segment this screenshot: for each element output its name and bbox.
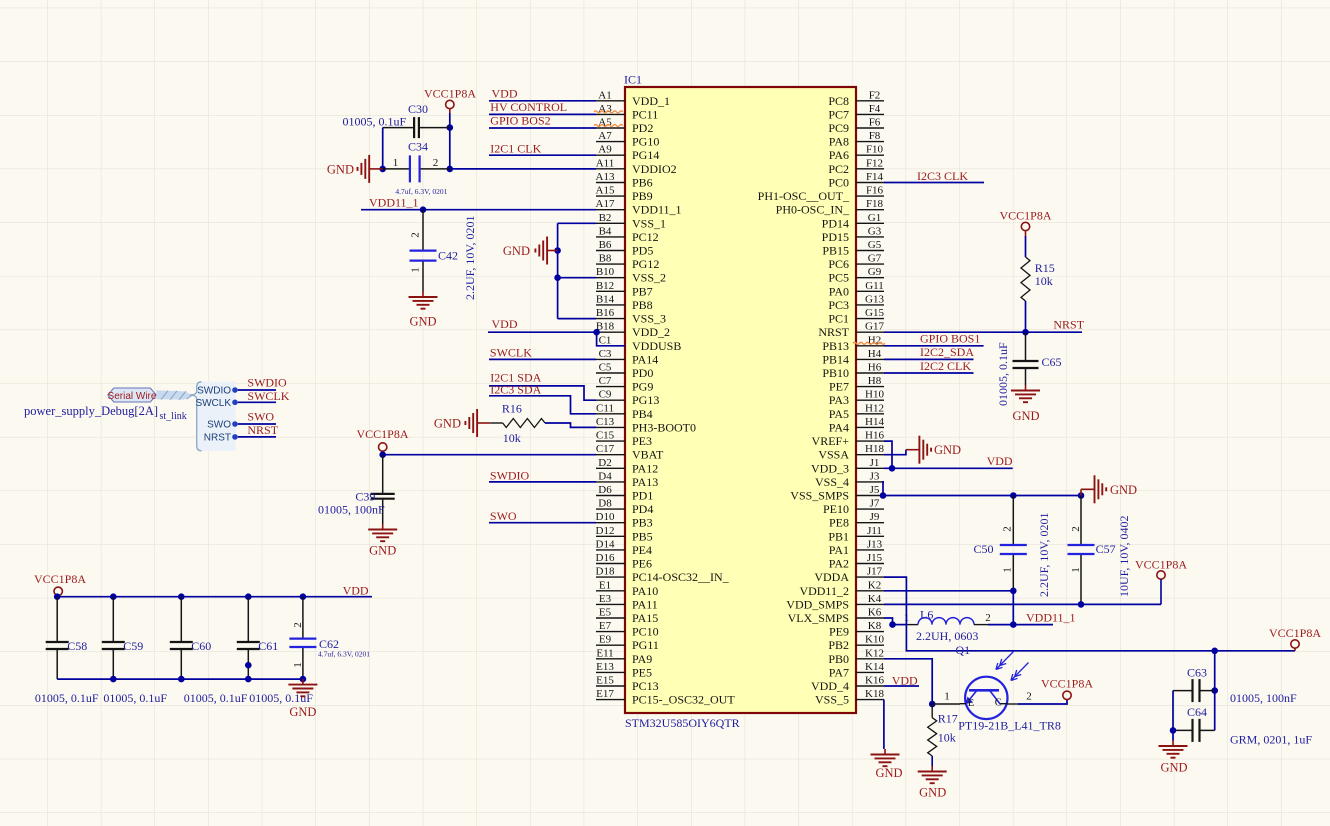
- svg-text:SWDIO: SWDIO: [197, 386, 231, 397]
- svg-text:VSS_SMPS: VSS_SMPS: [790, 489, 849, 503]
- svg-text:SWDIO: SWDIO: [490, 468, 530, 482]
- svg-text:J9: J9: [870, 511, 880, 523]
- svg-text:VDD11_2: VDD11_2: [799, 584, 849, 598]
- svg-text:PG11: PG11: [632, 638, 659, 652]
- svg-text:PA11: PA11: [632, 597, 658, 611]
- svg-text:VCC1P8A: VCC1P8A: [1269, 626, 1321, 640]
- pin A15 PB9: [596, 185, 653, 204]
- wire net VDDIO2 from C34 to pin A11: [450, 168, 596, 170]
- svg-text:C11: C11: [596, 402, 614, 414]
- svg-text:10k: 10k: [938, 731, 956, 745]
- wire net VDD from pin J1: [884, 467, 1013, 469]
- svg-text:PA2: PA2: [829, 557, 849, 571]
- svg-text:2.2UF, 10V, 0201: 2.2UF, 10V, 0201: [463, 216, 477, 301]
- svg-text:VDD: VDD: [492, 86, 518, 100]
- harness bus band: [156, 390, 192, 399]
- svg-text:VDD_3: VDD_3: [811, 461, 849, 475]
- capacitor C64: [1173, 705, 1215, 742]
- svg-text:C59: C59: [123, 639, 143, 653]
- pin H10 PA3: [829, 389, 885, 408]
- junction NRST/R15/C65: [1022, 329, 1029, 336]
- wire VSS_4 bend to VSS_SMPS: [883, 482, 884, 496]
- harness port SWCLK: [195, 398, 237, 409]
- svg-text:PB8: PB8: [632, 298, 653, 312]
- svg-text:Serial Wire: Serial Wire: [108, 391, 157, 402]
- pin E9 PG11: [596, 634, 659, 653]
- power port VCC1P8A (Q1 collector): [1041, 676, 1093, 699]
- junction VBAT/C39: [379, 451, 386, 458]
- pin B2 VSS_1: [596, 212, 666, 231]
- wire net VDDA from pin J17: [884, 577, 1295, 651]
- svg-text:J3: J3: [870, 470, 880, 482]
- svg-text:C34: C34: [408, 140, 428, 154]
- svg-text:C58: C58: [67, 639, 87, 653]
- svg-text:K10: K10: [865, 634, 884, 646]
- pin F4 PC7: [828, 103, 884, 122]
- pin K4 VDD_SMPS: [786, 593, 884, 612]
- svg-text:K4: K4: [868, 593, 882, 605]
- pin G15 PC1: [828, 307, 884, 326]
- ground GND below C42: [409, 292, 438, 329]
- power port VCC1P8A (C39/VBAT): [356, 427, 408, 455]
- junction C64 left lead: [1170, 727, 1177, 734]
- svg-text:C57: C57: [1096, 542, 1116, 556]
- svg-text:C61: C61: [258, 639, 278, 653]
- pin F16 PH1-OSC__OUT_: [758, 185, 884, 204]
- wire net I2C3_SDA to pin C11: [489, 396, 596, 414]
- pin A11 VDDIO2: [596, 157, 677, 176]
- capacitor C60: [170, 597, 212, 679]
- svg-text:D18: D18: [596, 566, 615, 578]
- pin H2 PB13: [822, 334, 884, 353]
- capacitor C61: [237, 597, 279, 679]
- svg-text:F2: F2: [869, 89, 881, 101]
- wire R15 to NRST net: [1025, 301, 1027, 332]
- junction C50 top: [1010, 492, 1017, 499]
- inductor L6: [918, 608, 974, 625]
- svg-text:PB3: PB3: [632, 516, 653, 530]
- wire VREF+ to VDD_3: [884, 441, 892, 468]
- svg-text:A17: A17: [596, 198, 615, 210]
- svg-text:PA9: PA9: [632, 652, 652, 666]
- pin B12 PB7: [596, 280, 653, 299]
- svg-text:A9: A9: [598, 144, 612, 156]
- svg-text:VCC1P8A: VCC1P8A: [999, 209, 1051, 223]
- svg-text:PB1: PB1: [828, 529, 849, 543]
- svg-text:C63: C63: [1187, 665, 1207, 679]
- resistor R17: [928, 704, 958, 756]
- svg-text:F12: F12: [866, 157, 883, 169]
- svg-text:PE6: PE6: [632, 557, 652, 571]
- svg-text:J7: J7: [870, 498, 880, 510]
- pin A17 VDD11_1: [596, 198, 682, 217]
- pin D6 PD1: [596, 484, 653, 503]
- svg-text:G17: G17: [865, 321, 884, 333]
- harness connector Serial Wire: [108, 388, 157, 402]
- capacitor C62: [289, 597, 339, 679]
- svg-text:C30: C30: [408, 102, 428, 116]
- svg-text:PA15: PA15: [632, 611, 658, 625]
- pin A13 PB6: [596, 171, 653, 190]
- svg-text:GND: GND: [289, 705, 316, 719]
- svg-text:PE7: PE7: [829, 380, 849, 394]
- pin A7 PG10: [596, 130, 659, 149]
- svg-text:Q1: Q1: [956, 643, 971, 657]
- wire port NRST stub: [238, 436, 276, 438]
- svg-text:GND: GND: [434, 417, 461, 431]
- svg-text:SWCLK: SWCLK: [247, 389, 289, 403]
- svg-text:PD4: PD4: [632, 502, 653, 516]
- svg-text:2.2UH, 0603: 2.2UH, 0603: [916, 629, 978, 643]
- pin C1 VDDUSB: [596, 334, 681, 353]
- wire C63/C64 left leads: [1172, 691, 1174, 741]
- pin H4 PB14: [822, 348, 884, 367]
- junction bottom rail C62/GND: [300, 676, 307, 683]
- svg-text:2: 2: [985, 612, 991, 624]
- svg-text:SWO: SWO: [490, 509, 517, 523]
- svg-text:VDD: VDD: [492, 317, 518, 331]
- wire port SWO stub: [238, 423, 276, 425]
- ground GND (VSSA): [906, 436, 961, 464]
- compile warning squiggle pin A5: [594, 125, 623, 127]
- pin G13 PC3: [828, 293, 884, 312]
- svg-text:H12: H12: [865, 402, 884, 414]
- wire net VDD to pin B18: [488, 331, 596, 333]
- junction top rail C62: [300, 593, 307, 600]
- svg-text:GND: GND: [1110, 483, 1137, 497]
- svg-text:C9: C9: [599, 389, 612, 401]
- wire down to C63: [1214, 651, 1216, 691]
- svg-text:K6: K6: [868, 607, 882, 619]
- pin D8 PD4: [596, 498, 653, 516]
- svg-text:E3: E3: [599, 593, 612, 605]
- junction C63/C64 branch: [1211, 648, 1218, 655]
- svg-text:PC9: PC9: [828, 121, 849, 135]
- svg-text:PT19-21B_L41_TR8: PT19-21B_L41_TR8: [958, 719, 1061, 733]
- svg-text:C: C: [995, 698, 1002, 709]
- junction VSS bus / B10: [554, 274, 561, 281]
- svg-text:PC14-OSC32__IN_: PC14-OSC32__IN_: [632, 570, 730, 584]
- svg-text:01005, 0.1uF: 01005, 0.1uF: [184, 691, 248, 705]
- junction top rail C58: [54, 593, 61, 600]
- pin C15 PE3: [596, 430, 652, 449]
- wire R17 to GND: [931, 756, 933, 766]
- pin J7 PE10: [823, 498, 884, 516]
- svg-text:PC8: PC8: [828, 94, 849, 108]
- pin H8 PE7: [829, 375, 884, 394]
- svg-text:1: 1: [1002, 567, 1014, 573]
- svg-text:H10: H10: [865, 389, 884, 401]
- svg-text:PG14: PG14: [632, 148, 659, 162]
- svg-text:GND: GND: [875, 766, 902, 780]
- compile warning squiggle pin A3: [594, 111, 623, 113]
- svg-text:01005, 0.1uF: 01005, 0.1uF: [35, 691, 99, 705]
- svg-text:PG12: PG12: [632, 257, 659, 271]
- svg-text:VCC1P8A: VCC1P8A: [1135, 558, 1187, 572]
- pin E3 PA11: [596, 593, 658, 612]
- pin E17 PC15-_OSC32_OUT: [596, 688, 735, 707]
- svg-text:GRM, 0201, 1uF: GRM, 0201, 1uF: [1230, 733, 1312, 747]
- svg-text:D14: D14: [596, 538, 615, 550]
- svg-text:I2C2_SDA: I2C2_SDA: [920, 345, 974, 359]
- junction top rail C60: [178, 593, 185, 600]
- pin H12 PA5: [829, 402, 884, 421]
- svg-text:PD5: PD5: [632, 244, 653, 258]
- svg-text:PA0: PA0: [829, 284, 849, 298]
- svg-text:2: 2: [410, 232, 422, 238]
- svg-text:PB2: PB2: [828, 638, 849, 652]
- svg-text:PD0: PD0: [632, 366, 653, 380]
- svg-text:PE3: PE3: [632, 434, 652, 448]
- svg-text:K18: K18: [865, 688, 884, 700]
- pin H16 VREF+: [812, 430, 885, 449]
- pin B6 PD5: [596, 239, 653, 258]
- svg-text:SWCLK: SWCLK: [195, 398, 231, 409]
- svg-text:PC7: PC7: [828, 107, 849, 121]
- ground GND below C65: [1011, 385, 1040, 423]
- svg-text:PA4: PA4: [829, 420, 849, 434]
- svg-text:PA14: PA14: [632, 352, 658, 366]
- junction J1: [889, 465, 896, 472]
- svg-text:F10: F10: [866, 144, 884, 156]
- junction at C34 left lead / GND: [379, 166, 386, 173]
- svg-text:B12: B12: [596, 280, 614, 292]
- junction bottom rail C59: [110, 676, 117, 683]
- wire net I2C1_SDA to pin C9: [489, 386, 596, 400]
- svg-text:E1: E1: [599, 579, 611, 591]
- pin K8 PE9: [829, 620, 884, 639]
- svg-text:H18: H18: [865, 443, 884, 455]
- svg-text:GND: GND: [1012, 409, 1039, 423]
- capacitor C65: [1013, 332, 1062, 385]
- svg-text:VDD_2: VDD_2: [632, 325, 670, 339]
- junction L6 input: [889, 621, 896, 628]
- svg-text:HV CONTROL: HV CONTROL: [490, 100, 567, 114]
- junction top rail C61: [245, 593, 252, 600]
- svg-text:PC10: PC10: [632, 625, 659, 639]
- junction C57 bottom / K4: [1078, 601, 1085, 608]
- svg-text:01005, 100nF: 01005, 100nF: [1230, 691, 1297, 705]
- svg-text:J15: J15: [867, 552, 883, 564]
- wire net SWCLK to pin C3: [489, 358, 596, 360]
- svg-text:PB6: PB6: [632, 176, 653, 190]
- pin J3 VSS_4: [815, 470, 884, 489]
- svg-text:J5: J5: [870, 484, 880, 496]
- junction C61 lead: [245, 662, 252, 669]
- capacitor C30: [383, 102, 450, 138]
- junction C57 top: [1078, 492, 1085, 499]
- svg-text:K12: K12: [865, 647, 884, 659]
- svg-text:VSS_2: VSS_2: [632, 271, 666, 285]
- svg-text:1: 1: [1070, 567, 1082, 573]
- svg-text:PB10: PB10: [822, 366, 849, 380]
- pin C3 PA14: [596, 348, 658, 367]
- svg-text:J17: J17: [867, 566, 883, 578]
- svg-text:10k: 10k: [503, 431, 521, 445]
- svg-text:PC3: PC3: [828, 298, 849, 312]
- svg-text:2: 2: [1026, 691, 1032, 703]
- svg-text:PD15: PD15: [822, 230, 849, 244]
- svg-text:NRST: NRST: [1053, 318, 1084, 332]
- pin A5 PD2: [596, 117, 653, 136]
- junction C50 bottom / K2: [1010, 588, 1017, 595]
- ground GND (left of C34): [327, 155, 383, 183]
- svg-text:VCC1P8A: VCC1P8A: [34, 572, 86, 586]
- svg-text:R16: R16: [502, 401, 522, 415]
- svg-text:1: 1: [393, 157, 399, 169]
- pin D12 PB5: [596, 525, 653, 544]
- pin B4 PC12: [596, 225, 659, 244]
- pin K14 PA7: [829, 661, 885, 680]
- ground GND (VSS pins): [503, 237, 558, 265]
- svg-text:PA3: PA3: [829, 393, 849, 407]
- wire to pin B10 VSS_2: [558, 277, 596, 279]
- pin B16 VSS_3: [596, 307, 666, 326]
- wire net VDD to pin A1: [489, 100, 596, 102]
- svg-text:D8: D8: [598, 498, 612, 510]
- svg-text:J11: J11: [867, 525, 882, 537]
- pin H6 PB10: [822, 362, 884, 381]
- junction top rail C59: [110, 593, 117, 600]
- wire net I2C3_CLK from pin F14: [884, 182, 984, 184]
- svg-text:2.2UF, 10V, 0201: 2.2UF, 10V, 0201: [1037, 513, 1051, 598]
- svg-text:VDD_4: VDD_4: [811, 679, 849, 693]
- svg-text:VSS_3: VSS_3: [632, 312, 666, 326]
- svg-text:NRST: NRST: [247, 423, 278, 437]
- ground GND (bank): [288, 679, 317, 719]
- power port VCC1P8A (R15): [999, 209, 1051, 237]
- svg-text:C60: C60: [191, 639, 211, 653]
- capacitor C58: [46, 597, 88, 679]
- svg-text:H8: H8: [868, 375, 882, 387]
- svg-text:VDD11_1: VDD11_1: [1026, 611, 1076, 625]
- pin C5 PD0: [596, 362, 653, 381]
- wire net I2C2_CLK from pin H6: [884, 372, 974, 374]
- svg-text:VDD_1: VDD_1: [632, 94, 670, 108]
- svg-text:E5: E5: [599, 607, 612, 619]
- svg-text:GPIO BOS2: GPIO BOS2: [490, 114, 550, 128]
- svg-text:C64: C64: [1187, 705, 1207, 719]
- capacitor C42: [410, 210, 459, 292]
- svg-text:01005, 100nF: 01005, 100nF: [318, 503, 385, 517]
- pin E5 PA15: [596, 607, 658, 626]
- svg-text:SWO: SWO: [207, 420, 231, 431]
- svg-text:PB13: PB13: [822, 339, 849, 353]
- power port VCC1P8A (K4 VDD_SMPS): [1135, 558, 1187, 605]
- harness port SWO: [207, 420, 238, 431]
- pin E15 PC13: [596, 675, 659, 694]
- svg-text:PC0: PC0: [828, 176, 849, 190]
- harness bracket: [190, 382, 202, 451]
- wire bank bottom rail: [57, 678, 303, 680]
- wire port SWCLK stub: [238, 401, 276, 403]
- svg-text:2: 2: [1070, 526, 1082, 532]
- svg-text:PA12: PA12: [632, 461, 658, 475]
- svg-text:1: 1: [944, 691, 950, 703]
- svg-text:PG13: PG13: [632, 393, 659, 407]
- pin K18 VSS_5: [815, 688, 884, 707]
- ground GND (SMPS rail): [1081, 475, 1137, 503]
- svg-text:PC5: PC5: [828, 271, 849, 285]
- svg-text:C39: C39: [355, 489, 375, 503]
- svg-text:C65: C65: [1042, 355, 1062, 369]
- svg-text:E11: E11: [596, 647, 613, 659]
- svg-text:B16: B16: [596, 307, 615, 319]
- svg-text:PA5: PA5: [829, 407, 849, 421]
- svg-text:VSS_4: VSS_4: [815, 475, 849, 489]
- svg-text:PA1: PA1: [829, 543, 849, 557]
- svg-text:10UF, 10V, 0402: 10UF, 10V, 0402: [1117, 516, 1131, 598]
- svg-text:PE9: PE9: [829, 625, 849, 639]
- junction bottom rail C60: [178, 676, 185, 683]
- svg-text:PB15: PB15: [822, 244, 849, 258]
- pin F10 PA6: [829, 144, 884, 163]
- pin A1 VDD_1: [596, 89, 670, 108]
- pin C17 VBAT: [596, 443, 664, 462]
- svg-text:VDD: VDD: [987, 454, 1013, 468]
- capacitor C57: [1068, 496, 1116, 605]
- svg-text:A11: A11: [596, 157, 615, 169]
- capacitor C39: [355, 455, 394, 524]
- pin F18 PH0-OSC_IN_: [776, 198, 884, 217]
- svg-text:C42: C42: [438, 249, 458, 263]
- wire C63 to C64 right leads: [1214, 691, 1216, 731]
- Q1 light arrow 1: [996, 652, 1014, 670]
- svg-text:01005, 0.1uF: 01005, 0.1uF: [343, 115, 407, 129]
- pin K12 PB0: [828, 647, 884, 666]
- svg-text:E9: E9: [599, 634, 612, 646]
- svg-text:B6: B6: [599, 239, 612, 251]
- Q1 light arrow 2: [1011, 663, 1029, 681]
- svg-text:PC6: PC6: [828, 257, 849, 271]
- capacitor C50: [974, 496, 1027, 591]
- svg-text:GND: GND: [503, 244, 530, 258]
- svg-text:PC12: PC12: [632, 230, 659, 244]
- svg-text:PD14: PD14: [822, 216, 849, 230]
- svg-text:R15: R15: [1035, 261, 1055, 275]
- svg-text:GND: GND: [1160, 761, 1187, 775]
- svg-text:C50: C50: [974, 542, 994, 556]
- svg-text:SWDIO: SWDIO: [247, 375, 287, 389]
- power port VCC1P8A (VDDA): [1269, 626, 1321, 651]
- wire net NRST from pin G17: [884, 331, 1082, 333]
- power port VCC1P8A (decoupling bank): [34, 572, 86, 596]
- wire VCC1P8A to R15: [1025, 236, 1027, 257]
- wire net GPIO_BOS1 from pin H2: [884, 345, 984, 347]
- svg-text:F4: F4: [869, 103, 881, 115]
- svg-text:PA7: PA7: [829, 665, 849, 679]
- svg-text:PB0: PB0: [828, 652, 849, 666]
- pin C7 PG9: [596, 375, 653, 394]
- svg-text:G3: G3: [868, 225, 882, 237]
- svg-text:D12: D12: [596, 525, 615, 537]
- wire port SWDIO stub: [238, 389, 276, 391]
- svg-text:C5: C5: [599, 362, 612, 374]
- svg-text:STM32U585OIY6QTR: STM32U585OIY6QTR: [625, 716, 740, 730]
- svg-text:01005, 0.1uF: 01005, 0.1uF: [996, 342, 1010, 406]
- junction at C30 right lead: [447, 124, 454, 131]
- svg-text:GPIO BOS1: GPIO BOS1: [920, 332, 980, 346]
- svg-text:PE4: PE4: [632, 543, 652, 557]
- ground GND below C39: [368, 524, 397, 558]
- svg-text:E7: E7: [599, 620, 612, 632]
- svg-text:SWO: SWO: [247, 410, 274, 424]
- svg-text:C13: C13: [596, 416, 615, 428]
- pin E1 PA10: [596, 579, 658, 598]
- svg-text:NRST: NRST: [204, 432, 231, 443]
- svg-text:VCC1P8A: VCC1P8A: [1041, 676, 1093, 690]
- pin G11 PA0: [829, 280, 884, 299]
